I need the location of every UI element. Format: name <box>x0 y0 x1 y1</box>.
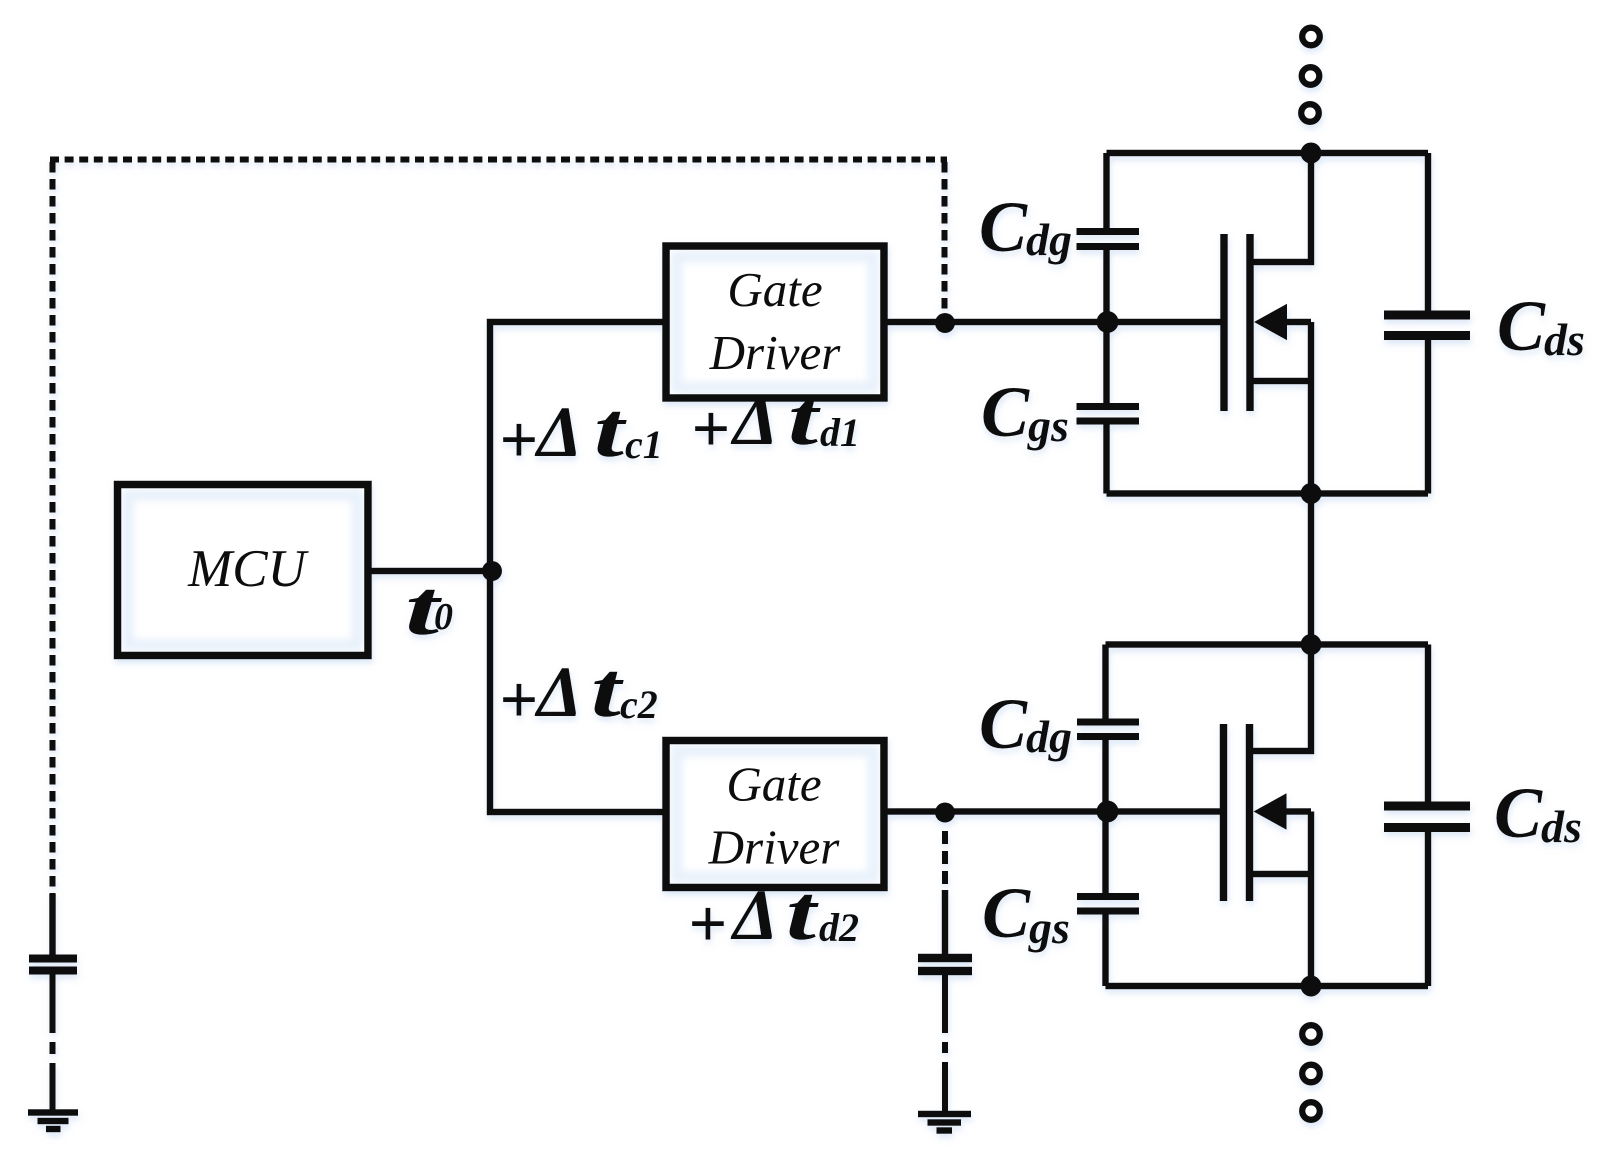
transistor Q2 body arrow <box>1254 793 1287 829</box>
wire between cells <box>1308 494 1315 645</box>
capacitor C-left <box>29 959 77 971</box>
svg-text:Cgs: Cgs <box>982 873 1070 953</box>
capacitor C-mid <box>918 958 972 971</box>
transistor Q2 gate bar <box>1220 724 1228 901</box>
gate driver U2 box <box>666 741 884 888</box>
wire lead below C-mid (dash-dot) <box>942 975 948 1033</box>
node t0 junction <box>482 561 502 581</box>
capacitor Cdg2 <box>1077 722 1139 737</box>
node Q1 drain junction <box>1301 143 1322 164</box>
capacitor Cds2 <box>1384 806 1470 828</box>
wire lead to capacitor C-left <box>49 894 56 955</box>
svg-text:t0: t0 <box>405 564 453 651</box>
upper cell: right leg segments around Cds1 <box>1425 153 1432 311</box>
svg-text:Gate: Gate <box>726 757 821 812</box>
wire dotted drop below U2 output node <box>942 831 948 884</box>
transistor Q2 drain lead <box>1250 645 1312 752</box>
svg-text:Gate: Gate <box>727 262 822 317</box>
wire gate driver U1 output to Q1 gate <box>884 319 1221 326</box>
MCU box <box>118 485 369 656</box>
wire dashed feedback net: left vertical <box>50 162 56 896</box>
node Q1 source junction <box>1301 483 1322 504</box>
ground mid <box>918 1114 971 1131</box>
node ellipsis circles above upper cell <box>1301 28 1320 122</box>
svg-text:Driver: Driver <box>708 820 841 875</box>
transistor Q1 body lead <box>1282 319 1311 326</box>
transistor Q1 body arrow <box>1254 304 1287 340</box>
wire riser with branches to gate drivers <box>490 322 666 812</box>
svg-text:MCU: MCU <box>187 540 310 598</box>
svg-text:Cgs: Cgs <box>981 372 1069 452</box>
svg-text:+Δtc1: +Δtc1 <box>499 386 663 477</box>
gate driver U1 box <box>666 246 884 398</box>
transistor Q1 channel bar <box>1246 234 1254 411</box>
transistor Q2 body lead <box>1282 808 1311 815</box>
svg-text:Cdg: Cdg <box>979 187 1072 267</box>
lower cell: right leg segments around Cds2 <box>1425 645 1432 802</box>
upper cell: bottom rail <box>1107 490 1429 497</box>
node Q2 gate net junction <box>1097 801 1119 823</box>
svg-text:Cdg: Cdg <box>979 684 1072 764</box>
lower cell: left leg segments around Cdg2/Cgs2 <box>1102 645 1109 720</box>
capacitor Cds1 <box>1384 315 1470 336</box>
wire MCU output <box>368 568 492 575</box>
upper cell: left leg segments around Cdg1/Cgs1 <box>1103 153 1110 229</box>
node Q2 source junction <box>1301 976 1322 997</box>
capacitor Cdg1 <box>1077 232 1140 247</box>
ground left <box>28 1113 78 1130</box>
svg-text:Driver: Driver <box>709 325 842 380</box>
svg-text:Cds: Cds <box>1494 773 1582 853</box>
wire gate driver U2 output to Q2 gate <box>884 808 1221 815</box>
transistor Q2 channel bar <box>1246 724 1254 901</box>
wire dashed feedback net: top horizontal <box>50 157 947 163</box>
upper cell: top rail <box>1107 150 1429 157</box>
lower cell: top rail <box>1106 641 1429 648</box>
wire lead to capacitor C-mid <box>942 890 949 954</box>
transistor Q1 gate bar <box>1220 234 1228 411</box>
node Q1 gate net junction <box>1097 311 1119 333</box>
transistor Q1 drain lead <box>1250 153 1311 262</box>
capacitor Cgs1 <box>1077 407 1140 422</box>
svg-text:Cds: Cds <box>1497 286 1585 366</box>
transistor Q2 source lead <box>1250 812 1312 987</box>
node on U2 output at dotted drop <box>935 803 955 823</box>
node on U1 output at dashed drop <box>935 313 955 333</box>
wire dashed feedback net: right vertical drop to gate node <box>942 162 948 313</box>
transistor Q1 source lead <box>1250 322 1311 494</box>
wire lead below C-left (dash-dot) <box>50 974 56 1033</box>
node Q2 drain junction <box>1301 634 1322 655</box>
capacitor Cgs2 <box>1077 897 1139 912</box>
lower cell: bottom rail <box>1106 983 1429 990</box>
node ellipsis circles below lower cell <box>1302 1025 1320 1120</box>
svg-text:+Δtc2: +Δtc2 <box>499 646 658 737</box>
